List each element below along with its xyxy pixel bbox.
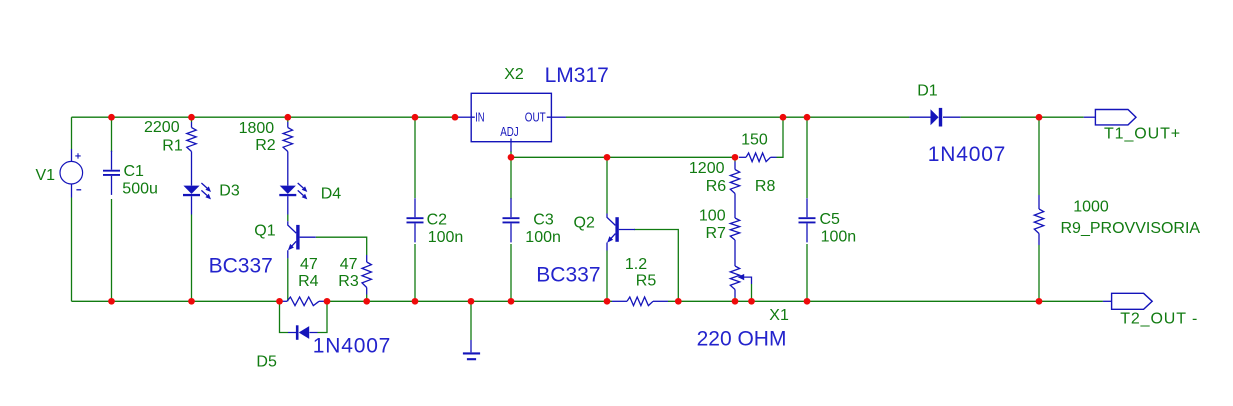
svg-text:D5: D5	[256, 354, 277, 371]
svg-text:1800: 1800	[239, 120, 275, 137]
svg-text:2200: 2200	[144, 119, 180, 136]
svg-text:1.2: 1.2	[625, 256, 647, 273]
svg-text:100: 100	[699, 208, 726, 225]
svg-text:R5: R5	[636, 273, 657, 290]
svg-text:100n: 100n	[428, 229, 464, 246]
svg-text:Q2: Q2	[574, 215, 595, 232]
svg-text:C3: C3	[533, 212, 554, 229]
svg-text:1000: 1000	[1073, 198, 1109, 215]
svg-text:47: 47	[300, 256, 318, 273]
svg-text:R1: R1	[162, 138, 183, 155]
svg-text:R4: R4	[298, 273, 319, 290]
svg-text:Q1: Q1	[254, 222, 275, 239]
svg-text:500u: 500u	[122, 181, 158, 198]
svg-text:D4: D4	[321, 185, 342, 202]
svg-text:D3: D3	[219, 183, 240, 200]
svg-text:X1: X1	[769, 307, 789, 324]
svg-text:220 OHM: 220 OHM	[697, 328, 787, 351]
svg-text:47: 47	[340, 256, 358, 273]
svg-text:R2: R2	[255, 137, 276, 154]
svg-text:R8: R8	[755, 178, 776, 195]
svg-text:1N4007: 1N4007	[313, 334, 391, 357]
svg-text:1N4007: 1N4007	[928, 143, 1006, 166]
svg-text:R6: R6	[706, 178, 727, 195]
svg-text:C5: C5	[820, 211, 841, 228]
svg-text:1200: 1200	[689, 160, 725, 177]
svg-text:150: 150	[741, 132, 768, 149]
svg-text:R7: R7	[706, 225, 727, 242]
svg-text:100n: 100n	[525, 229, 561, 246]
svg-text:IN: IN	[475, 110, 485, 125]
svg-text:OUT: OUT	[525, 110, 546, 125]
svg-text:V1: V1	[36, 167, 56, 184]
svg-text:T1_OUT+: T1_OUT+	[1104, 126, 1181, 143]
svg-text:R3: R3	[338, 273, 359, 290]
svg-text:T2_OUT -: T2_OUT -	[1120, 311, 1198, 328]
svg-text:BC337: BC337	[536, 263, 600, 286]
svg-text:X2: X2	[504, 66, 524, 83]
svg-text:LM317: LM317	[545, 64, 609, 87]
svg-text:BC337: BC337	[209, 254, 273, 277]
svg-text:C2: C2	[427, 211, 448, 228]
svg-text:C1: C1	[124, 163, 145, 180]
svg-text:R9_PROVVISORIA: R9_PROVVISORIA	[1061, 220, 1201, 237]
svg-text:ADJ: ADJ	[500, 124, 519, 139]
svg-text:D1: D1	[917, 83, 938, 100]
svg-text:100n: 100n	[821, 229, 857, 246]
